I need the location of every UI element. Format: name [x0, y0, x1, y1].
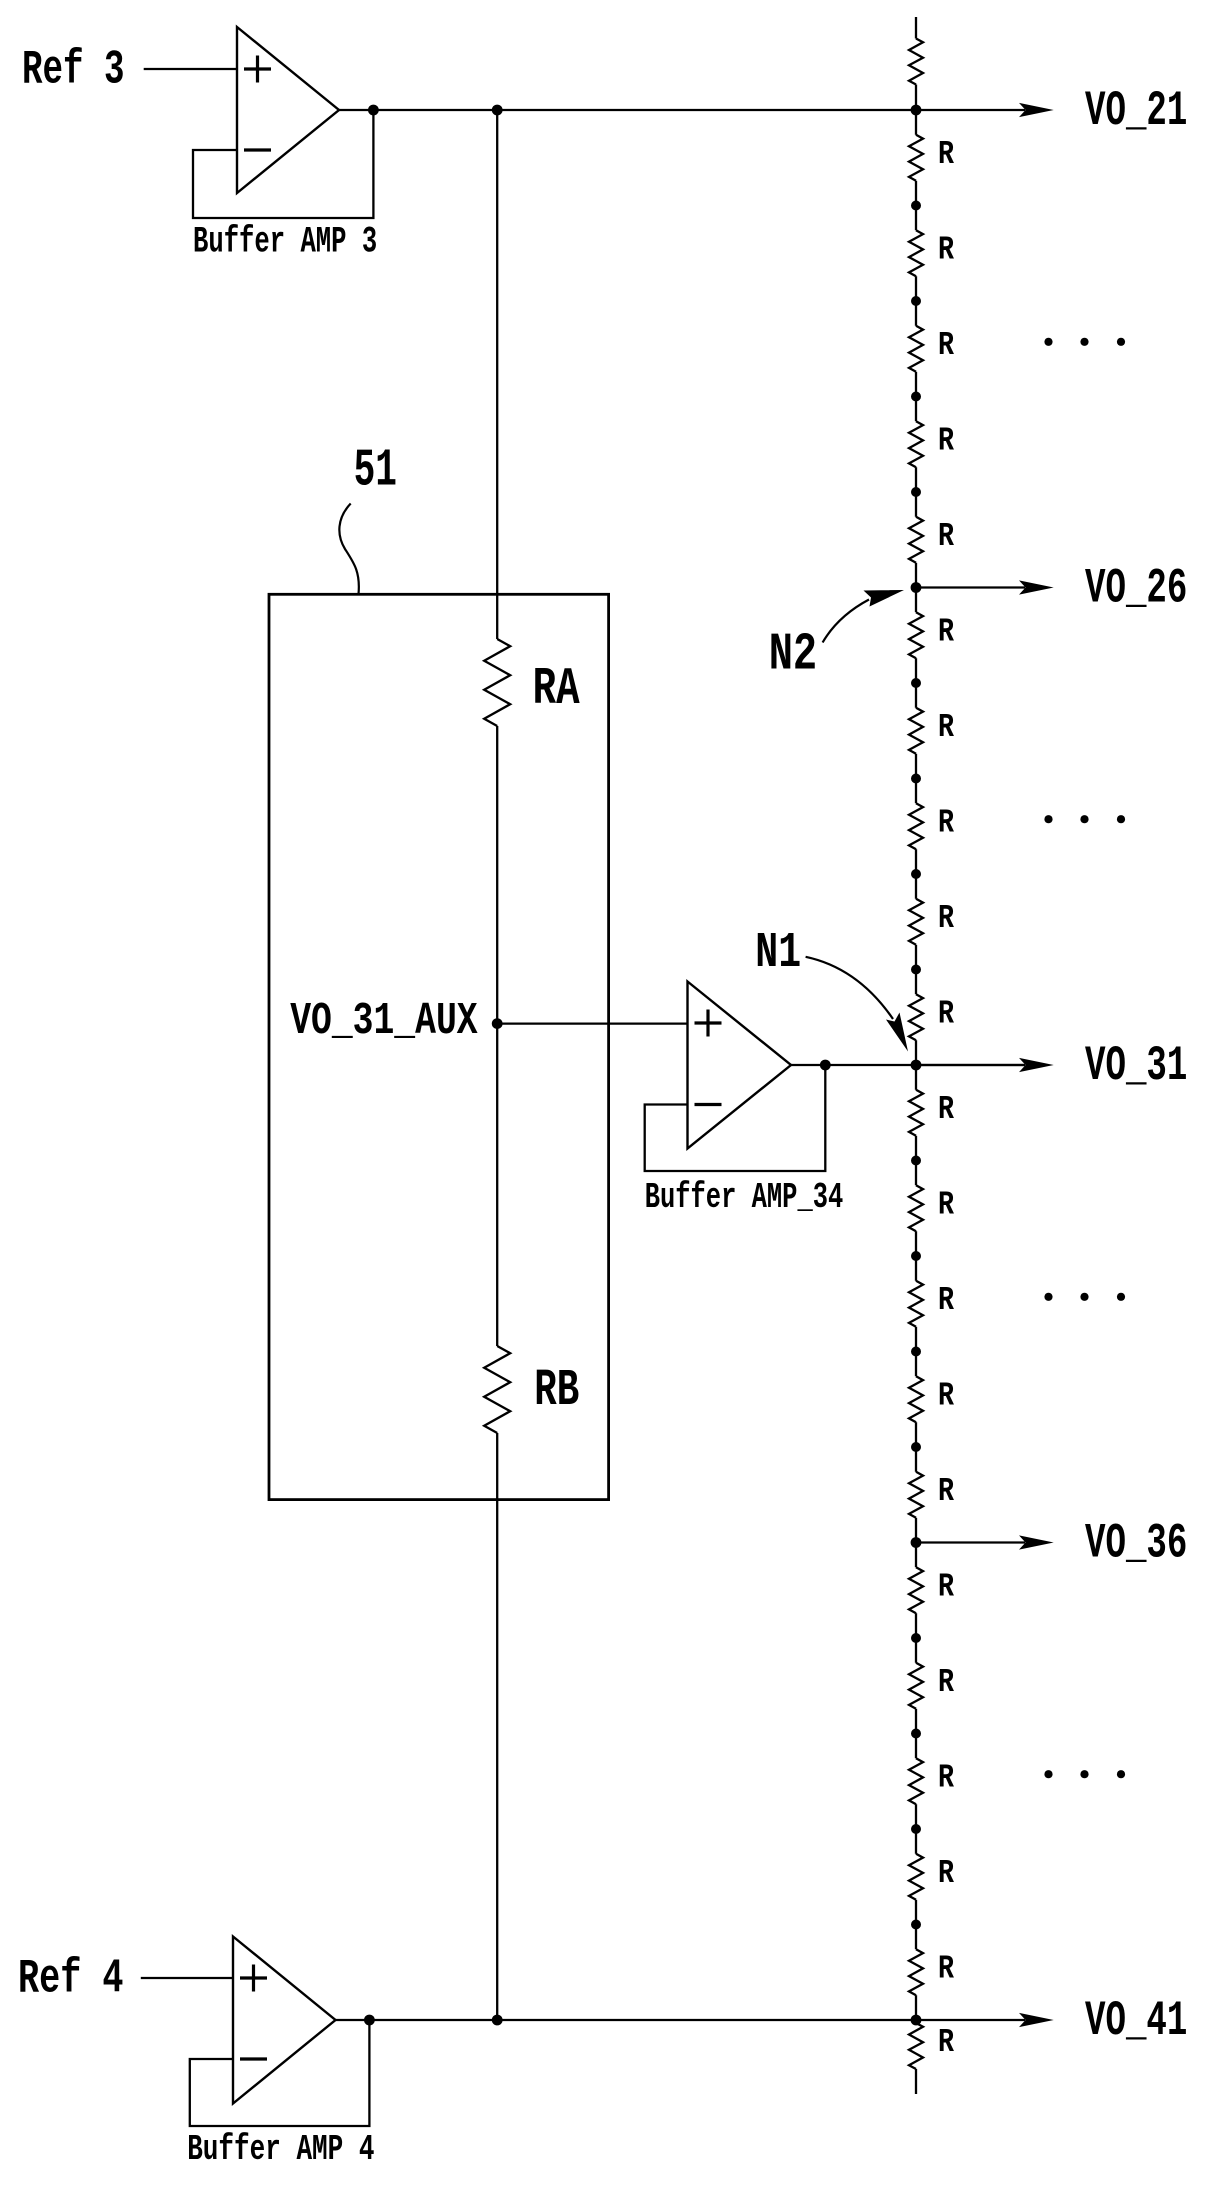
wire VO_31_AUX node to RB — [496, 1024, 498, 1346]
wire ladder segment 17b — [915, 1804, 917, 1829]
wire ladder segment 0b — [915, 181, 917, 206]
node VO_21 junction dot — [911, 105, 922, 116]
leader squiggle from 51 to block — [339, 504, 359, 595]
wire U34 output to VO_31 node — [791, 1064, 1025, 1066]
wire U4 output to VO_41 — [336, 2019, 1026, 2021]
svg-text:RA: RA — [533, 659, 580, 719]
node node tap 19 junction dot — [911, 1920, 921, 1930]
resistor RB — [484, 1346, 510, 1433]
wire ladder segment 6b — [915, 754, 917, 779]
arrowhead output VO_36 — [1019, 1535, 1054, 1549]
wire ladder segment 2b — [915, 372, 917, 397]
node node tap 3 junction dot — [911, 392, 921, 402]
svg-text:R: R — [938, 1091, 954, 1128]
svg-text:R: R — [938, 996, 954, 1033]
wire vertical from VO_21 line down to RA — [496, 110, 498, 639]
svg-text:R: R — [938, 231, 954, 268]
svg-text:R: R — [938, 1855, 954, 1892]
wire output VO_36 — [916, 1541, 1025, 1543]
resistor R18 — [909, 1758, 923, 1804]
op-amp U4 Buffer AMP 4 — [233, 1937, 336, 2104]
svg-text:R: R — [938, 1473, 954, 1510]
wire ladder segment 12a — [915, 1256, 917, 1281]
wire RA to VO_31_AUX node — [496, 726, 498, 1024]
wire feedback loop of U34 — [645, 1065, 826, 1171]
wire ladder segment 14a — [915, 1447, 917, 1472]
resistor RA — [484, 639, 510, 726]
wire ladder segment 19a — [915, 1925, 917, 1950]
svg-text:N2: N2 — [769, 625, 818, 685]
node VO_26 junction dot — [911, 582, 922, 593]
node U3 output junction dot — [368, 105, 379, 116]
svg-text:R: R — [938, 900, 954, 937]
svg-text:VO_31: VO_31 — [1085, 1038, 1187, 1094]
arrowhead of N1 leader — [886, 1013, 908, 1052]
wire ladder segment 13b — [915, 1422, 917, 1447]
wire ladder segment 10b — [915, 1136, 917, 1161]
node node tap 16 junction dot — [911, 1633, 921, 1643]
resistor R14 — [909, 1376, 923, 1422]
svg-text:R: R — [938, 709, 954, 746]
svg-text:R: R — [938, 1569, 954, 1606]
wire ladder segment 3b — [915, 467, 917, 492]
resistor R7 — [909, 708, 923, 754]
svg-text:R: R — [938, 1378, 954, 1415]
leader curve from N1 to node — [806, 957, 893, 1019]
resistor R6 — [909, 612, 923, 658]
resistor R19 — [909, 1854, 923, 1900]
resistor R5 — [909, 517, 923, 563]
svg-text:VO_36: VO_36 — [1085, 1515, 1187, 1571]
wire ladder segment 11a — [915, 1161, 917, 1186]
svg-text:Ref 3: Ref 3 — [22, 44, 125, 98]
svg-text:R: R — [938, 614, 954, 651]
node node tap 14 junction dot — [911, 1442, 921, 1452]
wire feedback loop of U4 — [190, 2020, 370, 2126]
arrowhead output VO_31 — [1019, 1058, 1054, 1072]
svg-text:R: R — [938, 1760, 954, 1797]
node node tap 9 junction dot — [911, 965, 921, 975]
node node tap 4 junction dot — [911, 487, 921, 497]
svg-text:R: R — [938, 1282, 954, 1319]
svg-text:Buffer AMP 4: Buffer AMP 4 — [187, 2129, 374, 2170]
wire ladder segment 14b — [915, 1518, 917, 1543]
ellipsis dots row 4 — [1044, 1770, 1125, 1778]
svg-text:VO_26: VO_26 — [1085, 560, 1187, 616]
wire ladder segment 7b — [915, 849, 917, 874]
wire ladder segment below VO_41 — [915, 2020, 917, 2023]
svg-text:VO_21: VO_21 — [1085, 83, 1187, 139]
node divider-input junction dot (top) — [492, 105, 503, 116]
resistor R11 — [909, 1090, 923, 1136]
node node tap 8 junction dot — [911, 869, 921, 879]
svg-text:VO_41: VO_41 — [1085, 1993, 1187, 2049]
svg-text:R: R — [938, 805, 954, 842]
wire ladder segment 4a — [915, 492, 917, 517]
wire ladder segment 8a — [915, 874, 917, 899]
wire ladder segment 16a — [915, 1638, 917, 1663]
node node tap 13 junction dot — [911, 1347, 921, 1357]
wire ladder segment 15a — [915, 1543, 917, 1568]
wire ladder segment 17a — [915, 1734, 917, 1759]
node VO_31 junction dot — [911, 1060, 922, 1071]
wire ladder segment 11b — [915, 1231, 917, 1256]
resistor R12 — [909, 1185, 923, 1231]
wire ladder segment 12b — [915, 1327, 917, 1352]
wire ladder segment 9a — [915, 970, 917, 995]
wire ladder bottom segment — [915, 2069, 917, 2094]
node U34 output junction dot — [820, 1060, 831, 1071]
wire ladder segment 15b — [915, 1613, 917, 1638]
resistor R4 — [909, 421, 923, 467]
node node tap 1 junction dot — [911, 201, 921, 211]
resistor R17 — [909, 1663, 923, 1709]
resistor R (top, unlabeled) — [909, 39, 923, 85]
wire ladder segment 5a — [915, 588, 917, 613]
wire ladder top segment — [915, 17, 917, 39]
wire ladder below top resistor — [915, 85, 917, 111]
resistor R10 — [909, 994, 923, 1040]
wire ladder segment 8b — [915, 945, 917, 970]
wire ladder segment 9b — [915, 1040, 917, 1065]
wire output VO_31 — [916, 1064, 1025, 1066]
wire Ref 4 to + input of U4 — [141, 1977, 233, 1979]
resistor R1 — [909, 135, 923, 181]
svg-text:Buffer AMP_34: Buffer AMP_34 — [645, 1177, 844, 1218]
node node tap 6 junction dot — [911, 678, 921, 688]
wire ladder segment 7a — [915, 779, 917, 804]
wire ladder segment 18b — [915, 1900, 917, 1925]
resistor R3 — [909, 326, 923, 372]
wire output VO_26 — [916, 586, 1025, 588]
resistor R20 — [909, 1949, 923, 1995]
wire Ref 3 to + input of U3 — [144, 68, 237, 70]
svg-text:Buffer AMP 3: Buffer AMP 3 — [193, 221, 377, 263]
ellipsis dots row 2 — [1044, 815, 1125, 823]
wire ladder segment 10a — [915, 1065, 917, 1090]
arrowhead output VO_21 — [1019, 103, 1054, 117]
wire ladder segment 2a — [915, 301, 917, 326]
node node tap 11 junction dot — [911, 1156, 921, 1166]
wire ladder segment 5b — [915, 658, 917, 683]
wire U3 output to VO_21 — [339, 109, 1025, 111]
leader curve from N2 to node — [823, 600, 869, 643]
svg-text:51: 51 — [354, 440, 397, 500]
node node tap 12 junction dot — [911, 1251, 921, 1261]
wire ladder segment 16b — [915, 1709, 917, 1734]
svg-text:N1: N1 — [755, 925, 801, 982]
node VO_41 junction dot — [911, 2015, 922, 2026]
ellipsis dots row 1 — [1044, 338, 1125, 346]
resistor R8 — [909, 803, 923, 849]
wire ladder segment 3a — [915, 397, 917, 422]
wire VO_31_AUX to + input of U34 — [497, 1022, 687, 1024]
svg-text:RB: RB — [534, 1361, 579, 1420]
op-amp U34 Buffer AMP_34 — [688, 982, 792, 1149]
arrowhead output VO_41 — [1019, 2013, 1054, 2027]
node node tap 17 junction dot — [911, 1729, 921, 1739]
node U4 output junction dot — [364, 2015, 375, 2026]
node divider junction dot (bottom) — [492, 2015, 503, 2026]
arrowhead output VO_26 — [1019, 580, 1054, 594]
block 51 outline — [269, 594, 609, 1499]
wire ladder segment 1b — [915, 276, 917, 301]
svg-text:R: R — [938, 327, 954, 364]
resistor R9 — [909, 899, 923, 945]
wire ladder segment 18a — [915, 1829, 917, 1854]
wire RB down to VO_41 line — [496, 1433, 498, 2020]
svg-text:R: R — [938, 1187, 954, 1224]
node node tap 2 junction dot — [911, 296, 921, 306]
wire ladder segment 0a — [915, 110, 917, 135]
ellipsis dots row 3 — [1044, 1293, 1125, 1301]
svg-text:R: R — [938, 1664, 954, 1701]
resistor R13 — [909, 1281, 923, 1327]
op-amp U3 Buffer AMP 3 — [237, 27, 339, 193]
svg-text:R: R — [938, 518, 954, 555]
wire ladder segment 1a — [915, 206, 917, 231]
resistor R21 (bottom) — [909, 2023, 923, 2069]
node node tap 7 junction dot — [911, 774, 921, 784]
node VO_36 junction dot — [911, 1537, 922, 1548]
wire ladder segment 13a — [915, 1352, 917, 1377]
wire ladder segment 6a — [915, 683, 917, 708]
svg-text:R: R — [938, 2024, 954, 2061]
wire ladder segment 19b — [915, 1995, 917, 2020]
node node tap 18 junction dot — [911, 1824, 921, 1834]
wire ladder segment 4b — [915, 563, 917, 588]
svg-text:VO_31_AUX: VO_31_AUX — [290, 995, 478, 1047]
wire feedback loop of U3 — [193, 110, 373, 218]
svg-text:R: R — [938, 422, 954, 459]
resistor R2 — [909, 230, 923, 276]
svg-text:Ref 4: Ref 4 — [18, 1953, 124, 2007]
resistor R16 — [909, 1567, 923, 1613]
node VO_31_AUX junction dot — [492, 1018, 503, 1029]
resistor R15 — [909, 1472, 923, 1518]
svg-text:R: R — [938, 1951, 954, 1988]
svg-text:R: R — [938, 136, 954, 173]
arrowhead of N2 leader — [864, 590, 905, 607]
